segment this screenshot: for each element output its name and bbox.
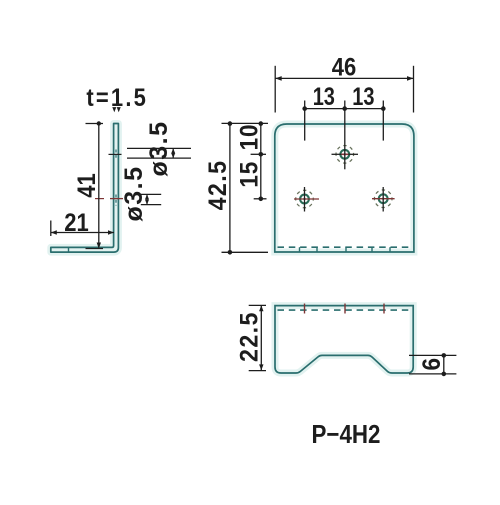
42.5 extension line top	[222, 122, 269, 124]
svg-text:ø3.5: ø3.5	[145, 120, 173, 176]
phi3.5 upper dim line top	[127, 147, 191, 149]
lower hole centerline tick on dim line	[95, 198, 104, 200]
42.5 extension line bottom	[222, 251, 269, 253]
hole left	[294, 187, 319, 212]
41 extension line top	[86, 123, 104, 125]
t leader arrow right	[117, 107, 121, 112]
phi3.5 lower arrows	[146, 194, 148, 204]
21 dimension line	[51, 232, 114, 234]
t leader arrow left	[112, 107, 116, 112]
21 extension line	[50, 221, 52, 237]
hole centerline tick right	[383, 304, 385, 314]
13 extension line right	[382, 101, 384, 141]
41 extension line bottom	[86, 248, 104, 250]
phi3.5 lower dim line bottom	[141, 204, 161, 206]
svg-text:ø3.5: ø3.5	[120, 165, 148, 221]
46 dimension line	[275, 77, 413, 79]
notch tick 3	[345, 247, 347, 251]
46 extension line left	[274, 66, 276, 113]
svg-text:13: 13	[313, 83, 335, 111]
13 extension line left	[304, 101, 306, 141]
46 extension line right	[413, 66, 415, 113]
13 extension line middle	[344, 101, 346, 170]
hole centerline tick middle	[344, 304, 346, 314]
svg-text:46: 46	[332, 53, 356, 81]
hidden hole lines in strip (upper)	[115, 150, 117, 160]
svg-text:41: 41	[73, 173, 101, 197]
svg-text:15: 15	[235, 161, 263, 188]
phi3.5 upper dim line bottom	[127, 157, 191, 159]
hole middle	[332, 146, 359, 164]
22.5 extension line top	[249, 304, 266, 306]
22.5 dimension line	[260, 305, 262, 370]
6 dimension lines	[409, 354, 456, 356]
notch tick 5	[389, 247, 391, 251]
bend dashed line bottom view	[278, 309, 411, 311]
svg-text:P−4H2: P−4H2	[312, 420, 381, 449]
22.5 extension line bottom	[249, 370, 266, 372]
plate outline	[275, 124, 414, 252]
upper hole centerline tick	[109, 153, 122, 155]
svg-text:42.5: 42.5	[204, 160, 232, 211]
notch tick 2	[316, 247, 318, 251]
42.5 dimension line	[229, 124, 231, 253]
notch tick 4	[371, 247, 373, 251]
15 tick	[254, 198, 267, 200]
hole centerline tick left	[304, 304, 306, 314]
svg-text:22.5: 22.5	[236, 311, 264, 362]
hole right	[372, 187, 395, 212]
phi3.5 upper arrows	[172, 148, 174, 158]
10 tick	[251, 153, 266, 155]
15 10 dimension line	[260, 124, 262, 199]
notch tick 1	[299, 247, 301, 251]
lower hole centerline tick	[110, 198, 123, 200]
svg-text:13: 13	[352, 83, 374, 111]
notch edge on flange	[68, 247, 70, 252]
hidden hole lines in strip (lower)	[115, 195, 117, 206]
41 dimension line	[98, 125, 100, 248]
svg-text:6: 6	[418, 358, 446, 371]
bend dashed line	[278, 246, 412, 248]
svg-text:10: 10	[235, 124, 263, 151]
phi3.5 lower dim line top	[141, 193, 161, 195]
6 dimension vertical	[443, 355, 445, 374]
L-bracket side profile	[51, 124, 119, 253]
svg-text:21: 21	[64, 209, 88, 237]
flange outline with cutout	[275, 306, 413, 373]
13 13 dimension line	[305, 108, 384, 110]
